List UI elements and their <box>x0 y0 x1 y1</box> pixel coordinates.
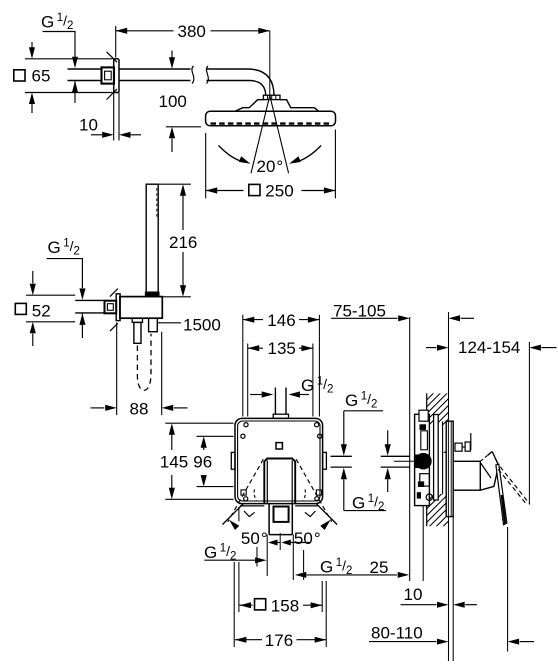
center plug square <box>276 443 282 449</box>
arm elbow outer <box>247 69 274 96</box>
swivel dashed right <box>296 459 332 522</box>
head cap left profile <box>235 100 263 112</box>
ext 158 right <box>321 581 323 612</box>
dim line 380 right <box>211 30 270 32</box>
lever tip ext v5 <box>507 527 509 652</box>
ball blob merge <box>415 455 424 469</box>
shaft 50 left arrow <box>277 542 280 544</box>
svg-text:10: 10 <box>404 585 423 604</box>
hand pipe bottom <box>75 312 104 314</box>
ext 380 left <box>115 26 117 58</box>
dim 135 right <box>299 347 313 349</box>
arm right seg top <box>207 68 248 70</box>
arrow 88 left <box>105 405 117 411</box>
ball joint band <box>263 95 280 99</box>
ext 145 top <box>165 422 233 424</box>
arrow 250 left <box>206 187 218 193</box>
wall rosette hand <box>116 294 120 321</box>
finished wall line v3a <box>448 312 450 661</box>
screw hole TL2 <box>241 434 245 438</box>
arrow 250 right <box>324 187 336 193</box>
max depth wall line <box>442 421 444 494</box>
swivel arc small right <box>303 490 305 501</box>
union nut hand <box>105 301 117 314</box>
leader G1/2 arm <box>43 32 76 58</box>
wall section left edge <box>426 393 428 526</box>
trim plate side <box>446 421 453 516</box>
leader G1/2 outlet L <box>204 559 255 561</box>
svg-text:50°: 50° <box>241 529 268 548</box>
ext rosette right <box>118 93 120 141</box>
leader 75-105 <box>331 317 398 319</box>
svg-text:88: 88 <box>130 399 149 418</box>
dim 216 upper <box>182 195 184 230</box>
arrow 135 left <box>248 345 260 351</box>
angle arrow right <box>320 520 330 530</box>
screw hole TL <box>244 423 248 427</box>
arrow 75-105 right-line <box>449 315 461 321</box>
arrow 80-110 left <box>437 639 449 645</box>
shaft top-port arrow R <box>299 394 309 396</box>
dim 146 right <box>299 319 319 321</box>
arm thread pipe top <box>68 68 102 70</box>
shaft down-arrow 65 <box>31 42 33 48</box>
arrow 146 left <box>243 317 255 323</box>
housing inner detail lower <box>420 474 430 486</box>
ext 250 right <box>334 130 336 199</box>
ball knurl 3 <box>275 95 277 99</box>
angle leader left <box>223 504 244 525</box>
bottom flange right <box>295 505 318 507</box>
dim line 250 left <box>206 190 244 192</box>
cartridge inner left <box>266 461 268 504</box>
leader G1/2 hand <box>47 259 83 288</box>
cartridge housing outline <box>264 459 295 504</box>
arrow 96 top <box>201 436 207 448</box>
arrow 124-154 right <box>529 345 541 351</box>
handle dashed edge <box>481 455 488 461</box>
arrow 10 right <box>119 132 131 138</box>
svg-text:20°: 20° <box>257 157 284 176</box>
trim face ext v3b <box>452 517 454 661</box>
cartridge ball (black) <box>415 453 432 470</box>
top port left line <box>274 388 276 415</box>
arrow 80-110 right <box>508 639 519 645</box>
lever dark lower <box>502 495 505 524</box>
swivel arrow left <box>239 156 251 164</box>
hose cone collar <box>132 318 142 322</box>
svg-text:380: 380 <box>178 22 206 41</box>
housing circle side <box>426 494 432 500</box>
arrow top-port R <box>289 391 301 397</box>
dim 135 left <box>248 347 263 349</box>
arrow down hand pipe <box>79 288 85 300</box>
ext 88 right <box>161 332 163 415</box>
arrow G1/2 outlet R <box>295 572 307 578</box>
hand shower hose dashed <box>137 334 151 391</box>
shaft 75-105 right <box>461 317 475 319</box>
ext line sq65 bottom <box>25 92 113 94</box>
square symbol 250 <box>249 184 260 195</box>
ext 135 right <box>312 344 314 417</box>
arrow up 65 <box>29 93 35 105</box>
screw link <box>462 446 465 448</box>
wall hatching lower band <box>427 371 449 570</box>
arrow top-port L <box>262 391 274 397</box>
swivel arrow right <box>289 156 301 164</box>
wall ref line v1 <box>409 317 411 581</box>
dim 96 upper <box>203 447 205 450</box>
ext 146 right <box>318 315 320 417</box>
svg-text:65: 65 <box>32 67 51 86</box>
ball knurl 1 <box>267 95 269 99</box>
trim plate inner left <box>447 421 449 516</box>
lever solid <box>496 464 507 525</box>
centerline ext <box>279 533 281 550</box>
swivel arc right <box>295 146 321 163</box>
arrow 10 left <box>437 602 449 608</box>
dim 176 left <box>235 639 262 641</box>
angle leg right <box>270 96 289 174</box>
arm elbow inner <box>249 81 266 96</box>
shaft up-arrow 65 <box>31 104 33 114</box>
shaft 50 right arrow <box>291 542 310 544</box>
hand pipe top <box>75 299 104 301</box>
svg-text:96: 96 <box>193 453 212 472</box>
angle leader right <box>316 504 337 525</box>
leader 80-110 <box>369 641 437 643</box>
inlet stub right top <box>381 455 410 457</box>
arrow up to arm pipe bottom <box>72 81 78 93</box>
min depth line v2 <box>422 505 424 581</box>
box face plate side <box>434 415 439 501</box>
shaft 10 right <box>131 134 142 136</box>
leader G1/2 side upper <box>344 410 383 412</box>
arrow down 52 <box>30 284 36 296</box>
housing clip black <box>417 492 421 498</box>
screw hole BL <box>244 497 248 501</box>
chamfer tick hand top <box>110 289 118 297</box>
swivel arc small left <box>254 490 256 501</box>
lever max ext v4 <box>528 342 530 505</box>
arrow 25 right <box>398 572 410 578</box>
ext 216 top <box>158 183 191 185</box>
screw hole TR2 <box>318 434 322 438</box>
arrow 10 right <box>453 602 465 608</box>
ext tube left <box>266 535 268 576</box>
ext 52 bottom <box>26 321 75 323</box>
svg-text:25: 25 <box>370 558 389 577</box>
shared leader line G1/2-25 <box>306 574 397 576</box>
arrow 124-154 left <box>437 345 449 351</box>
ext tube right <box>292 535 294 580</box>
shaft down-arrow 52 <box>32 271 34 284</box>
handle head inner line <box>480 463 491 479</box>
arrow 145 top <box>169 423 175 435</box>
spout opening square <box>274 507 289 522</box>
dim 145 upper <box>171 432 173 450</box>
arrow 88 right <box>162 405 174 411</box>
inlet stub right bottom <box>381 466 410 468</box>
svg-text:50°: 50° <box>294 529 321 548</box>
holder block <box>120 297 162 319</box>
shaft down-arrow side L <box>343 411 345 445</box>
arrow 176 left <box>235 637 247 643</box>
shaft 10 left <box>91 134 102 136</box>
inlet axis line <box>394 460 429 462</box>
square symbol 65 <box>14 70 25 81</box>
arrow up pipe side R <box>385 468 391 480</box>
arrow down pipe side L <box>341 444 347 456</box>
swivel arc left <box>219 146 245 163</box>
arrow 146 right <box>308 317 320 323</box>
shaft up-arrow 52 <box>32 334 34 347</box>
arrow 10 left <box>102 132 114 138</box>
arrow up hand pipe <box>79 313 85 325</box>
chamfer tick bottom <box>107 89 117 99</box>
leader 1500 <box>157 322 181 324</box>
shaft 88 right <box>174 407 188 409</box>
hose cone <box>134 322 141 343</box>
arrow 176 right <box>315 637 327 643</box>
shaft 10 right <box>465 604 477 606</box>
square symbol 52 <box>15 303 26 314</box>
bottom flange left <box>240 505 264 507</box>
shaft up-arrow hand pipe <box>81 313 83 338</box>
small arrow at max depth line <box>443 450 452 455</box>
rough-in box inner <box>238 421 320 501</box>
shower arm top line <box>119 68 191 70</box>
ext 96 top <box>197 435 234 437</box>
svg-text:250: 250 <box>265 182 293 201</box>
clip square BR <box>316 490 321 495</box>
dim 158 left <box>240 604 253 606</box>
ext 176 right <box>325 581 327 647</box>
top port flange <box>273 414 288 418</box>
svg-text:100: 100 <box>159 92 187 111</box>
ext 176 left <box>233 562 235 647</box>
arrow down pipe side R <box>385 444 391 456</box>
arrow up 100 <box>169 127 175 139</box>
arrow up pipe side L <box>341 468 347 480</box>
spray face band <box>146 292 159 296</box>
shower arm bottom line <box>119 80 191 82</box>
hose nipple <box>149 318 158 332</box>
dim 216 lower <box>182 252 184 286</box>
housing detail black upper <box>420 424 427 430</box>
chamfer tick top <box>107 52 117 62</box>
side port left <box>231 452 235 469</box>
arrow 216 bottom <box>180 285 186 297</box>
spout tube bottom <box>269 534 292 536</box>
dim 146 left <box>243 319 263 321</box>
svg-text:146: 146 <box>267 311 295 330</box>
ext port left outer <box>256 547 258 567</box>
spout tube left <box>268 504 270 535</box>
arrow 145 bottom <box>169 488 175 500</box>
svg-text:52: 52 <box>32 301 51 320</box>
arrow 158 left <box>240 602 252 608</box>
arrow down to arm pipe top <box>72 57 78 68</box>
ext port right outer <box>303 550 305 580</box>
handle head <box>480 452 498 491</box>
screw collar <box>455 443 462 451</box>
spout tube right <box>291 504 293 535</box>
handle head top edge solid <box>488 452 493 456</box>
chevron right <box>305 511 316 517</box>
shaft up-arrow side L <box>343 479 345 510</box>
dim line 250 right <box>302 190 336 192</box>
arrow 158 right <box>311 602 323 608</box>
arm right seg bottom <box>207 80 250 82</box>
ext line head face <box>166 126 201 128</box>
arrow 380 right <box>258 28 270 34</box>
angle leg left <box>251 96 270 174</box>
square union nut arm <box>102 67 115 83</box>
valve body <box>453 461 480 490</box>
svg-text:216: 216 <box>169 233 197 252</box>
nozzle band dashes <box>211 122 331 124</box>
dim 158 right <box>303 604 322 606</box>
arrow down 65 <box>29 47 35 59</box>
swivel dashed left <box>228 459 263 522</box>
ext 88 left <box>116 323 118 416</box>
svg-text:80-110: 80-110 <box>371 623 423 642</box>
ext 250 left <box>205 133 207 198</box>
wall hatching upper band <box>427 371 449 570</box>
leader 10 side <box>401 604 437 606</box>
arrow down 100 <box>169 57 175 68</box>
stick inner dashed line <box>156 188 158 217</box>
svg-text:145: 145 <box>160 453 188 472</box>
pipe break right S <box>206 66 208 84</box>
nut inner hand <box>107 304 113 311</box>
square symbol 158 <box>255 599 266 610</box>
chevron left <box>244 511 255 517</box>
shaft up-arrow G1/2 arm <box>74 81 76 103</box>
arrow 50 at tube-left <box>268 540 278 546</box>
ball knurl 2 <box>271 95 273 99</box>
shaft up-arrow side R <box>387 479 389 492</box>
shaft 124-154 right <box>541 347 556 349</box>
svg-text:158: 158 <box>271 596 299 615</box>
top port right line <box>285 388 287 415</box>
ext 158 left upper <box>238 507 240 521</box>
rough housing side <box>415 414 430 505</box>
shaft 124-154 left <box>426 347 436 349</box>
housing inner detail upper <box>421 431 428 450</box>
ext 158 left lower <box>238 562 240 612</box>
ext 146 left <box>242 315 244 417</box>
cartridge inner right <box>291 461 293 504</box>
angle arrow left <box>229 520 239 530</box>
head centerline <box>269 31 271 96</box>
shaft 100 bottom <box>171 139 173 153</box>
pipe break left S <box>192 66 194 84</box>
shaft 88 left <box>91 407 105 409</box>
svg-text:10: 10 <box>79 115 98 134</box>
trim plate inner right <box>450 421 452 516</box>
arrow G1/2 outlet L <box>255 557 267 563</box>
chamfer tick hand bottom <box>110 323 118 331</box>
hand shower stick <box>146 184 158 292</box>
ext 52 top <box>26 294 75 296</box>
svg-text:176: 176 <box>265 631 293 650</box>
ext 216 bottom <box>159 296 191 298</box>
head cap right profile <box>280 100 319 112</box>
shaft down-arrow side R <box>387 430 389 444</box>
leader G1/2 side lower <box>344 510 386 512</box>
lever alt dashed 2 <box>498 469 527 505</box>
arrow 216 top <box>180 184 186 196</box>
ext rosette left <box>113 93 115 141</box>
dim 176 right <box>297 639 327 641</box>
side port right <box>323 452 327 469</box>
arrow 135 right <box>301 345 313 351</box>
shaft 100 top <box>171 51 173 58</box>
arrow 96 bottom <box>201 475 207 487</box>
svg-text:124-154: 124-154 <box>458 338 520 357</box>
screw hole BR <box>315 497 319 501</box>
arrow 75-105 left-line <box>398 315 410 321</box>
shaft 80-110 right <box>520 641 534 643</box>
svg-text:135: 135 <box>268 339 296 358</box>
ext 145 bottom <box>165 498 233 500</box>
housing top port side <box>419 410 428 421</box>
ext 135 left <box>247 344 249 417</box>
nut inner face <box>105 71 112 80</box>
dim line 380 left <box>116 30 174 32</box>
screw head <box>465 442 470 451</box>
inlet stub left bottom <box>331 466 352 468</box>
clip square BL <box>241 490 246 495</box>
arrow 50 at centerline <box>281 540 291 546</box>
inlet stub left top <box>331 455 352 457</box>
ext 96 bottom <box>197 486 234 488</box>
screw hole TR <box>315 423 319 427</box>
shower head disc <box>206 111 336 126</box>
svg-text:1500: 1500 <box>183 316 221 335</box>
shaft top-port arrow L <box>250 394 262 396</box>
housing detail black lower <box>418 481 424 487</box>
dim 96 lower <box>203 475 205 477</box>
lever alt dashed 1 <box>500 467 529 504</box>
screw stem <box>470 433 472 450</box>
wall rosette arm (side) <box>114 59 119 93</box>
ext line sq65 top <box>25 58 113 60</box>
arrow 380 left <box>116 28 128 34</box>
rough-in box outer <box>235 418 323 503</box>
arrow up 52 <box>30 322 36 334</box>
dim 145 lower <box>171 475 173 491</box>
arm thread pipe bottom <box>68 80 102 82</box>
